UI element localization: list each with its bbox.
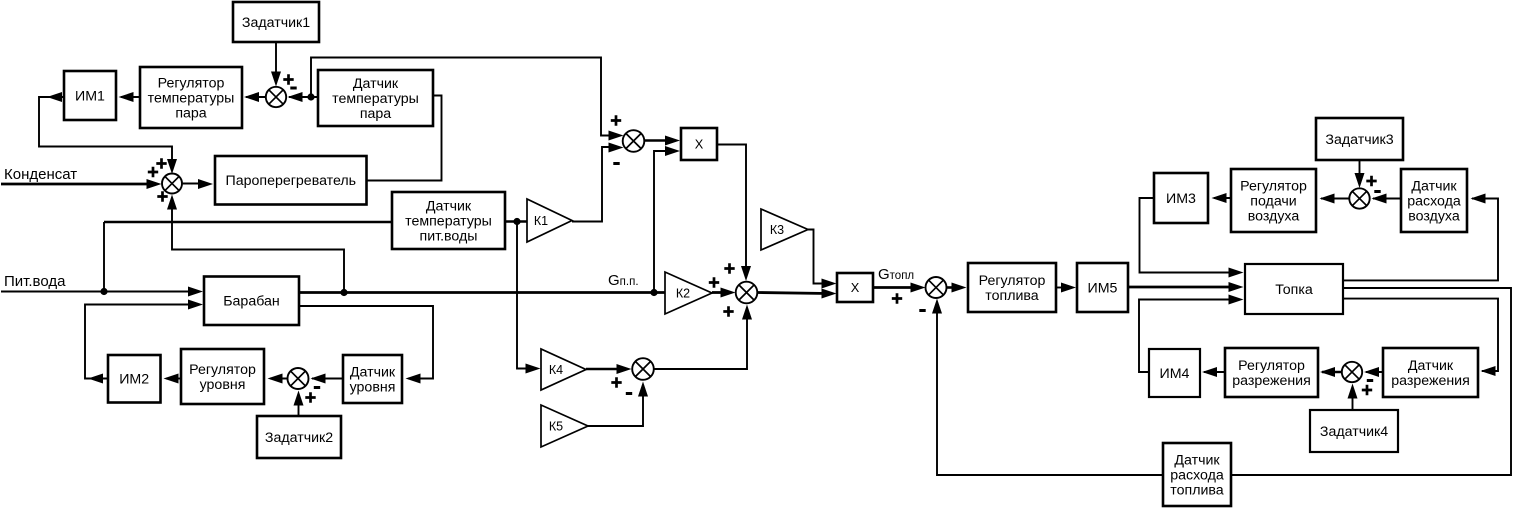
wire SJ4 to Регулятор топлива [947,286,961,289]
wire Регулятор уровня to ИМ2 [166,378,181,380]
svg-text:Топка: Топка [1275,282,1313,298]
svg-text:Регулятор: Регулятор [158,75,225,91]
wire Барабан to Датчик уровня [300,306,433,379]
block ИМ5 [1077,263,1128,312]
wire feedwater riser [103,222,105,292]
wire Датчик уровня to SJ-level [312,378,343,380]
svg-text:Gп.п.: Gп.п. [608,272,639,289]
wire Топка output B to Датчик расхода топлива [1231,288,1511,475]
wire recirculation to SJ-left [172,200,344,293]
amplifier К5 [541,405,588,447]
wire ИМ5 to Топка [1128,286,1236,289]
svg-text:Задатчик3: Задатчик3 [1325,132,1393,148]
block Датчик разрежения [1383,348,1478,397]
block Задатчик3 [1316,118,1403,160]
svg-text:температуры: температуры [405,214,492,230]
summing junction SJ2 [736,282,758,304]
svg-text:X: X [695,137,704,152]
wire ИМ2 to Барабан [85,305,192,379]
plus sign SJ5 top [1366,176,1376,186]
minus sign SJ6 right [1367,379,1373,382]
wire SJ6 to Регулятор разрежения [1322,371,1342,373]
wire Задатчик1 to SJ1 [275,42,277,80]
wire Топка output C to Датчик разрежения [1343,299,1498,371]
block Пароперегреватель [215,156,367,205]
svg-text:подачи: подачи [1250,194,1296,210]
svg-text:топлива: топлива [1170,483,1223,499]
svg-text:Датчик: Датчик [1411,178,1457,194]
summing junction SJ3 [632,358,654,380]
wire SJ1 to Регулятор температуры пара [246,96,266,98]
plus sign SJ4 left [892,293,902,303]
svg-text:Датчик: Датчик [350,364,396,380]
wire branch down to К4 [517,222,535,369]
wire Конденсат into SJ-left [1,183,148,186]
amplifier К2 [665,272,712,314]
plus sign SJ3 left [611,377,621,387]
svg-text:Пароперегреватель: Пароперегреватель [226,173,357,189]
svg-text:К5: К5 [549,419,563,433]
svg-text:Регулятор: Регулятор [1240,178,1307,194]
svg-text:топлива: топлива [985,288,1038,304]
wire SJ3 to SJ2 [654,309,747,369]
wire К4 to SJ3 [586,368,625,371]
svg-text:К3: К3 [770,223,784,237]
svg-text:Конденсат: Конденсат [4,166,77,183]
svg-text:разрежения: разрежения [1232,373,1311,389]
wire SJ-level to Регулятор уровня [270,378,288,380]
svg-text:уровня: уровня [200,377,246,393]
summing junction SJ-mid [623,130,645,152]
summing junction SJ6 [1342,362,1362,382]
svg-text:К1: К1 [534,214,548,228]
block multiplier X2 [837,273,873,302]
wire Датчик разрежения to SJ6 [1366,371,1383,373]
svg-text:Регулятор: Регулятор [1238,358,1305,374]
block Регулятор подачи воздуха [1231,169,1316,232]
block Топка [1245,264,1343,314]
wire ИМ3 to Топка [1140,198,1237,273]
svg-text:ИМ3: ИМ3 [1166,191,1196,207]
svg-text:Датчик: Датчик [426,198,472,214]
block Регулятор топлива [968,263,1056,312]
wire К2 to SJ2 [712,291,728,294]
svg-text:ИМ2: ИМ2 [119,372,149,388]
svg-text:пара: пара [175,106,206,122]
wire SJ5 to Регулятор подачи воздуха [1321,198,1349,200]
wire К1 to SJ-mid [572,147,618,222]
wire К3 to X2 upper [808,230,830,284]
wire К5 to SJ3 [588,386,643,426]
wire SJ-mid to X1 [645,139,673,141]
wire Регулятор разрежения to ИМ4 [1204,371,1225,373]
svg-text:пара: пара [360,106,391,122]
plus sign SJ-left left input [148,167,158,177]
svg-text:Датчик: Датчик [353,76,399,92]
svg-text:X: X [851,280,860,295]
block ИМ1 [64,71,116,120]
summing junction SJ1 steam-temp [266,87,286,107]
plus sign SJ2 top [724,263,734,273]
svg-text:Пит.вода: Пит.вода [4,273,66,290]
summing junction SJ5 [1349,188,1369,208]
plus sign SJ-mid top [611,115,621,125]
node junction on sensor wire [307,93,314,100]
minus sign SJ-level sensor [314,386,320,389]
svg-text:Датчик: Датчик [1408,358,1454,374]
svg-text:Задатчик1: Задатчик1 [242,15,310,31]
wire Задатчик4 to SJ6 [1352,388,1354,410]
plus sign SJ-left bottom input [157,191,167,201]
plus sign SJ6 bottom [1362,385,1372,395]
amplifier К3 [761,209,808,250]
wire ИМ1 to condensate SJ [39,97,172,168]
block Регулятор разрежения [1225,348,1318,397]
block Датчик температуры пара [318,70,433,126]
block Датчик температуры пит.воды [392,192,505,249]
block Задатчик1 [233,2,319,42]
plus sign SJ-level setpoint [305,392,315,402]
minus sign SJ1 feedback [290,87,296,90]
wire Задатчик2 to SJ-level [298,395,300,416]
svg-text:воздуха: воздуха [1248,209,1300,225]
node junction recirculation tee [340,289,347,296]
wire Датчик расхода топлива to SJ4 [937,304,1163,475]
wire Регулятор топлива to ИМ5 [1056,287,1069,289]
block Регулятор температуры пара [140,67,242,128]
amplifier К1 [527,199,572,242]
wire sensor branch top line to SJ-mid [311,58,618,136]
plus sign SJ1 setpoint [283,74,293,84]
svg-text:Регулятор: Регулятор [979,273,1046,289]
svg-text:ИМ1: ИМ1 [75,89,105,105]
svg-text:расхода: расхода [1170,468,1224,484]
svg-text:Датчик: Датчик [1174,452,1220,468]
wire Датчик температуры пара to SJ1 [289,96,318,98]
wire ИМ4 to Топка [1139,300,1236,373]
svg-text:расхода: расхода [1407,194,1461,210]
svg-text:температуры: температуры [332,91,419,107]
wire SJ2 to X2 [758,293,829,294]
svg-text:ИМ4: ИМ4 [1160,366,1190,382]
wire X2 to SJ4 [873,286,918,289]
block ИМ2 [108,355,161,403]
block Регулятор уровня [181,349,264,404]
minus sign SJ4 bottom [919,309,925,312]
svg-text:разрежения: разрежения [1391,373,1470,389]
svg-text:Gтопл: Gтопл [878,266,914,283]
svg-text:ИМ5: ИМ5 [1088,281,1118,297]
wire Регулятор температуры пара to ИМ1 [121,96,140,98]
block ИМ4 [1149,349,1200,397]
wire Регулятор подачи воздуха to ИМ3 [1214,197,1231,199]
block multiplier X1 [681,128,717,160]
wire SJ-left to Пароперегреватель [182,183,200,185]
svg-text:К4: К4 [549,363,563,377]
svg-text:температуры: температуры [148,91,235,107]
wire Топка output A to Датчик расхода воздуха [1343,199,1498,281]
minus sign SJ-mid bottom [613,162,619,165]
block Задатчик2 [257,416,341,458]
node junction K1 branch [513,218,520,225]
svg-text:К2: К2 [676,286,690,300]
summing junction SJ-level [288,368,309,389]
wire Барабан steam main line [299,291,666,294]
plus sign SJ-left top input [156,158,166,168]
plus sign SJ2 left [709,277,719,287]
wire Пит.вода to Барабан [1,291,192,293]
svg-text:Задатчик2: Задатчик2 [265,430,333,446]
node junction feedwater tee [100,288,107,295]
plus sign SJ2 bottom [723,306,733,316]
wire Gп.п. branch to X1 [654,151,672,293]
block Барабан [204,277,299,326]
block Датчик расхода топлива [1163,443,1231,506]
wire Пароперегреватель to Датчик температуры пара [367,96,442,181]
minus sign SJ3 bottom [626,392,632,395]
wire feedwater tap to Датчик температуры пит.воды [104,221,392,224]
wire Датчик температуры пит.воды to К1 [505,220,527,222]
svg-text:уровня: уровня [350,380,396,396]
summing junction SJ4 [926,277,947,298]
svg-text:пит.воды: пит.воды [420,229,478,245]
svg-text:Барабан: Барабан [223,294,280,310]
wire Задатчик3 to SJ5 [1359,160,1361,182]
svg-text:воздуха: воздуха [1408,209,1460,225]
node junction X1 tap [650,289,657,296]
svg-text:Регулятор: Регулятор [189,362,256,378]
minus sign SJ5 right [1374,190,1380,193]
wire X1 to SJ2 [717,145,746,277]
block ИМ3 [1154,173,1208,223]
block Датчик уровня [343,355,402,403]
wire Датчик расхода воздуха to SJ5 [1373,198,1401,200]
block Задатчик4 [1310,410,1398,452]
svg-text:Задатчик4: Задатчик4 [1320,424,1388,440]
amplifier К4 [541,349,586,390]
summing junction SJ-left condensate [162,174,182,194]
block Датчик расхода воздуха [1401,169,1467,232]
